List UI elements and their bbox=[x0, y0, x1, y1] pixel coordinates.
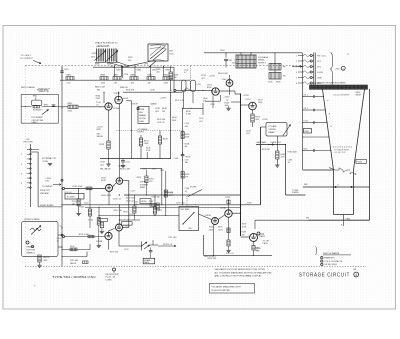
notes line 3 bbox=[215, 274, 263, 277]
svg-text:R144: R144 bbox=[172, 117, 176, 119]
resistor R861 bbox=[130, 75, 138, 85]
notes box bbox=[210, 284, 255, 294]
svg-text:LOCATE: LOCATE bbox=[269, 125, 278, 128]
svg-text:V173: V173 bbox=[246, 99, 252, 101]
svg-text:SEE PARTS LIST FOR SEMICON: SEE PARTS LIST FOR SEMICONDUCTOR TYPES bbox=[215, 268, 266, 271]
label above intensity box bbox=[38, 89, 50, 94]
svg-text:REAR MTD: REAR MTD bbox=[324, 256, 335, 259]
flood gun bracket bbox=[331, 53, 333, 88]
svg-text:.001: .001 bbox=[155, 111, 159, 113]
svg-text:.005: .005 bbox=[156, 72, 160, 74]
label TRACE ROTATION ADJ bbox=[95, 42, 118, 48]
potentiometer R891 trace rotation B bbox=[107, 49, 119, 66]
svg-text:C147 .02: C147 .02 bbox=[118, 166, 126, 168]
svg-text:R137: R137 bbox=[97, 129, 102, 131]
flood gun pin 6 bbox=[296, 82, 321, 85]
label R152 bbox=[186, 111, 191, 116]
label C134 bbox=[96, 102, 100, 107]
svg-text:5: 5 bbox=[296, 77, 297, 79]
svg-text:2: 2 bbox=[321, 261, 322, 263]
svg-text:+125V: +125V bbox=[136, 177, 142, 179]
svg-text:C180: C180 bbox=[288, 159, 292, 161]
label C167 bbox=[176, 202, 185, 204]
wire V193B grid bbox=[62, 234, 105, 238]
potentiometer R841 INTENSITY front panel box bbox=[21, 94, 58, 124]
trace rotation enclosure bbox=[93, 67, 175, 93]
resistor R863 bbox=[147, 75, 155, 85]
wire left bus vertical bbox=[61, 80, 62, 266]
svg-text:R178 1M: R178 1M bbox=[262, 149, 270, 151]
resistor R855 bbox=[100, 75, 108, 85]
svg-text:DIAG 2: DIAG 2 bbox=[32, 121, 38, 124]
connector to bus bbox=[38, 204, 62, 207]
svg-text:ALL VOLTAGES MEASURED WITH: ALL VOLTAGES MEASURED WITH NO SIGNAL APP… bbox=[215, 271, 273, 274]
svg-text:R157 1M: R157 1M bbox=[114, 210, 122, 212]
svg-text:-8: -8 bbox=[330, 126, 332, 128]
svg-text:.001: .001 bbox=[100, 164, 104, 166]
phosphor screen hatched band bbox=[310, 85, 368, 89]
vacuum tube V183A bbox=[220, 206, 233, 217]
svg-text:R147 2.2M: R147 2.2M bbox=[175, 100, 185, 102]
svg-text:ERASE: ERASE bbox=[27, 245, 35, 248]
wire to tube V135A grid bbox=[78, 106, 105, 107]
svg-text:C865: C865 bbox=[156, 69, 160, 71]
svg-text:RATE: RATE bbox=[144, 261, 150, 264]
resistor R139 vertical bbox=[99, 141, 110, 159]
diagonal switch arm bbox=[188, 190, 202, 197]
svg-text:4: 4 bbox=[355, 273, 357, 277]
wire vertical x170 bbox=[170, 92, 171, 158]
svg-text:+75: +75 bbox=[261, 234, 264, 236]
V183 box wall bbox=[203, 235, 205, 256]
svg-text:4.7K: 4.7K bbox=[281, 156, 286, 158]
flood gun pin 2 bbox=[296, 60, 321, 63]
svg-text:4: 4 bbox=[21, 164, 22, 166]
vacuum tube V135B bbox=[114, 93, 129, 104]
svg-text:R145 2.2M: R145 2.2M bbox=[120, 168, 130, 170]
svg-text:.02: .02 bbox=[185, 191, 188, 193]
resistor R148 vertical bbox=[169, 66, 179, 91]
label cluster bottom left bbox=[100, 162, 105, 167]
reference brace bbox=[315, 247, 316, 256]
svg-text:.01: .01 bbox=[96, 105, 99, 107]
label C153 bbox=[64, 192, 72, 194]
svg-text:C139: C139 bbox=[100, 162, 105, 164]
transformer T166 upper bbox=[269, 64, 286, 71]
svg-text:C159: C159 bbox=[129, 214, 133, 216]
svg-text:(SEE NOTE 3): (SEE NOTE 3) bbox=[96, 46, 109, 48]
svg-text:CONN: CONN bbox=[106, 279, 113, 281]
svg-text:1M: 1M bbox=[72, 203, 75, 205]
svg-text:VALUE: VALUE bbox=[70, 262, 77, 265]
wire rail to DL160 bbox=[240, 52, 251, 55]
svg-text:ERASE: ERASE bbox=[139, 114, 146, 117]
svg-text:R866: R866 bbox=[166, 69, 170, 71]
svg-text:220K: 220K bbox=[164, 82, 169, 84]
svg-text:L891: L891 bbox=[110, 67, 114, 69]
svg-text:V183B: V183B bbox=[205, 215, 212, 217]
labels on column lower bbox=[185, 188, 189, 193]
svg-text:.001: .001 bbox=[201, 78, 205, 80]
svg-text:DC SUPPLY: DC SUPPLY bbox=[21, 58, 34, 60]
svg-text:BEAM: BEAM bbox=[269, 131, 275, 134]
wire main vertical bus B bbox=[261, 127, 267, 205]
label R178 bbox=[262, 149, 270, 151]
wire V135B anode up bbox=[118, 66, 128, 97]
wire bottom long bbox=[204, 255, 272, 256]
label -GATE bbox=[256, 141, 282, 144]
svg-text:L245: L245 bbox=[160, 170, 164, 172]
svg-text:R153 470K: R153 470K bbox=[73, 186, 84, 188]
svg-text:C808: C808 bbox=[304, 131, 308, 133]
svg-text:SEL: SEL bbox=[185, 162, 189, 164]
notes line 2 bbox=[215, 271, 273, 274]
transistor Q195 cluster bbox=[132, 240, 158, 251]
CRT funnel left wall bbox=[323, 89, 334, 170]
svg-text:C136: C136 bbox=[124, 74, 128, 76]
svg-text:TRACE ROTATION TO: TRACE ROTATION TO bbox=[95, 42, 118, 45]
svg-text:+75V: +75V bbox=[335, 69, 341, 71]
dashed chassis boundary top bbox=[25, 64, 302, 66]
svg-text:390K: 390K bbox=[172, 120, 177, 122]
CRT electrode lead COLL bbox=[302, 121, 327, 124]
svg-text:R195: R195 bbox=[70, 246, 74, 248]
label C193 bbox=[124, 249, 128, 251]
svg-text:C158: C158 bbox=[174, 158, 178, 160]
resistor R153 bbox=[86, 187, 92, 190]
svg-text:ALUMINIZED PHOSPHOR SCREEN: ALUMINIZED PHOSPHOR SCREEN bbox=[313, 82, 346, 85]
CRT shield bottom bbox=[306, 217, 370, 220]
svg-text:+125V: +125V bbox=[262, 119, 268, 121]
wire CRT neck to base bbox=[341, 215, 344, 227]
svg-text:C168: C168 bbox=[185, 188, 189, 190]
label phosphor screen bbox=[313, 82, 346, 85]
svg-text:R167: R167 bbox=[149, 201, 153, 203]
svg-text:2: 2 bbox=[296, 61, 297, 63]
wire vertical x128.8 bbox=[123, 181, 129, 196]
write gun elements bbox=[329, 168, 356, 175]
svg-text:R861: R861 bbox=[131, 75, 136, 77]
label flood gun voltage bbox=[335, 69, 341, 71]
vacuum tube V173 bbox=[241, 99, 257, 110]
svg-text:R151: R151 bbox=[149, 178, 153, 180]
interlock box bbox=[179, 207, 199, 231]
svg-text:1: 1 bbox=[321, 257, 322, 259]
svg-text:R146: R146 bbox=[146, 147, 150, 149]
svg-text:R845: R845 bbox=[44, 104, 48, 106]
front panel erase control box bbox=[22, 222, 59, 257]
svg-text:DEF: DEF bbox=[304, 184, 308, 186]
wire V152B to V193A bbox=[119, 194, 120, 224]
labels left of V135 bbox=[96, 96, 102, 101]
wire V214 anode to CRT bbox=[255, 220, 309, 229]
svg-text:CRT: CRT bbox=[169, 51, 174, 53]
capacitor C197 column bbox=[149, 247, 153, 258]
svg-text:PLUG - IN: PLUG - IN bbox=[106, 277, 116, 279]
label R159 rows bbox=[126, 198, 136, 203]
label C165 bbox=[199, 118, 203, 123]
wire riser bbox=[163, 66, 164, 77]
svg-text:COIL: COIL bbox=[169, 54, 175, 56]
svg-text:R182 100K: R182 100K bbox=[288, 151, 298, 153]
wire riser left bbox=[61, 66, 63, 80]
label cathode CRT bbox=[263, 241, 271, 245]
svg-text:SEC EMIS: SEC EMIS bbox=[181, 209, 191, 211]
svg-text:BUTTON: BUTTON bbox=[27, 249, 36, 251]
svg-text:C166: C166 bbox=[268, 81, 272, 83]
svg-text:1M: 1M bbox=[185, 146, 188, 148]
locate upper beam box bbox=[266, 123, 287, 137]
svg-text:SEE NOTE 4: SEE NOTE 4 bbox=[204, 256, 217, 258]
svg-text:.001: .001 bbox=[185, 126, 189, 128]
svg-text:R159 120K: R159 120K bbox=[126, 198, 136, 200]
label R136 bbox=[126, 90, 135, 92]
label TYPE 564 bbox=[52, 275, 96, 279]
svg-text:SEL: SEL bbox=[97, 89, 101, 91]
small -8 marks on funnel bbox=[327, 100, 332, 128]
svg-text:R189: R189 bbox=[242, 232, 246, 234]
label R216 bbox=[256, 248, 260, 253]
svg-text:V164: V164 bbox=[222, 79, 228, 81]
label R193 bbox=[110, 251, 119, 253]
svg-text:C152: C152 bbox=[184, 69, 188, 71]
labels top middle bbox=[201, 75, 206, 80]
svg-text:6: 6 bbox=[296, 83, 297, 85]
svg-text:C157: C157 bbox=[131, 190, 135, 192]
labels x134 column bbox=[133, 195, 138, 220]
svg-text:SW: SW bbox=[189, 228, 192, 230]
svg-text:568: 568 bbox=[353, 269, 356, 271]
label R213 bbox=[158, 244, 176, 247]
resistor R843 bbox=[68, 103, 79, 112]
svg-text:C193: C193 bbox=[124, 249, 128, 251]
svg-text:.047: .047 bbox=[246, 133, 250, 135]
deflection plate line bbox=[303, 184, 370, 187]
wire coil stems bbox=[184, 92, 193, 109]
svg-text:V183A: V183A bbox=[220, 206, 227, 209]
wire y168 corner bbox=[140, 168, 164, 205]
labels below erase box bbox=[138, 128, 149, 134]
svg-text:STORAGE: STORAGE bbox=[258, 56, 269, 59]
svg-text:IMAGE: IMAGE bbox=[151, 103, 158, 106]
svg-text:C167 .005: C167 .005 bbox=[176, 202, 185, 204]
svg-text:F GUN: F GUN bbox=[357, 161, 363, 163]
svg-text:V135A: V135A bbox=[113, 107, 120, 110]
flood gun connector bus bbox=[314, 53, 316, 88]
svg-text:SCREEN: SCREEN bbox=[140, 184, 149, 186]
vacuum tube V183B bbox=[205, 215, 219, 224]
svg-text:R890: R890 bbox=[95, 64, 99, 66]
resistor R168 on column bbox=[181, 172, 189, 179]
erase rate box bbox=[143, 258, 155, 264]
label under pots bbox=[96, 46, 109, 48]
svg-text:CE 2: CE 2 bbox=[317, 66, 321, 68]
svg-text:3.3M: 3.3M bbox=[186, 113, 191, 115]
dashed lead to box bbox=[186, 196, 188, 207]
svg-text:ASTIG: ASTIG bbox=[44, 256, 50, 259]
resistor R175 bbox=[251, 110, 261, 127]
wire to V161 grid bbox=[176, 90, 212, 91]
svg-text:4: 4 bbox=[296, 72, 297, 74]
erase pulse generator box bbox=[132, 103, 158, 124]
label right V173 bbox=[258, 99, 263, 104]
label under bus left bbox=[21, 86, 49, 92]
CRT neck right rail bbox=[353, 170, 355, 215]
svg-text:R868 1M: R868 1M bbox=[120, 87, 128, 89]
svg-text:.01: .01 bbox=[288, 162, 291, 164]
label STORE bbox=[190, 187, 197, 189]
label R157 bbox=[114, 210, 122, 212]
svg-text:CATH: CATH bbox=[263, 242, 269, 245]
wire x99 column bbox=[99, 207, 107, 234]
svg-text:CATH: CATH bbox=[317, 76, 323, 79]
svg-text:VOLTAGES MEASURED WITH: VOLTAGES MEASURED WITH bbox=[212, 285, 242, 288]
reference item 3 bbox=[321, 263, 338, 266]
node circle left bbox=[62, 187, 64, 189]
svg-text:C855: C855 bbox=[116, 69, 120, 71]
wire gate row bbox=[256, 144, 286, 145]
labels below V183B bbox=[209, 224, 214, 256]
vacuum tube V164 bbox=[222, 79, 233, 86]
label R147 bbox=[175, 100, 185, 102]
reference item 1 bbox=[321, 256, 336, 259]
label DEF bbox=[304, 184, 308, 186]
horiz plug symbol bbox=[113, 268, 116, 273]
wire pots to boundary bbox=[105, 62, 129, 68]
inductor L152 bbox=[185, 88, 192, 91]
connector spine bbox=[31, 144, 39, 207]
CRT funnel right wall bbox=[354, 89, 365, 170]
label R218 bbox=[255, 248, 259, 253]
resistor R167 on mid wire bbox=[149, 201, 156, 206]
capacitor C851 bbox=[60, 67, 68, 81]
svg-text:C219 .01: C219 .01 bbox=[226, 253, 234, 255]
svg-text:C153 .01: C153 .01 bbox=[64, 192, 72, 194]
potentiometer R890 trace rotation A bbox=[95, 49, 107, 66]
wire y220 bbox=[119, 220, 140, 225]
vacuum tube V161 bbox=[207, 85, 219, 96]
svg-text:TP158: TP158 bbox=[185, 157, 190, 159]
capacitor C152 dashed lead bbox=[190, 66, 192, 88]
vacuum tube V135A bbox=[105, 103, 120, 116]
svg-text:GEN: GEN bbox=[139, 121, 144, 123]
resistor R156 on column bbox=[181, 132, 190, 139]
vacuum tube V152B bbox=[101, 177, 123, 184]
svg-text:L873: L873 bbox=[144, 63, 148, 65]
svg-text:R219 33K: R219 33K bbox=[208, 258, 217, 260]
label +225V V173 bbox=[243, 95, 249, 97]
svg-text:+GATE OUT: +GATE OUT bbox=[270, 141, 282, 144]
wire riser bbox=[121, 66, 122, 77]
wire V152 links bbox=[109, 183, 116, 205]
label +125V bbox=[224, 97, 231, 99]
label R142 bbox=[157, 119, 166, 124]
svg-text:R158: R158 bbox=[185, 143, 189, 145]
resistor R171 column bbox=[153, 195, 162, 216]
flood gun pin 5 bbox=[296, 76, 323, 79]
label L891 bbox=[110, 67, 114, 69]
label under bus mid bbox=[95, 87, 105, 92]
connector pin labels bbox=[21, 154, 22, 185]
svg-text:6: 6 bbox=[21, 173, 22, 175]
notes line 1 bbox=[215, 268, 266, 271]
transformer T166 lower bbox=[269, 73, 287, 80]
cluster on column mid bbox=[174, 153, 191, 165]
svg-text:470K: 470K bbox=[185, 136, 190, 138]
svg-text:8: 8 bbox=[21, 183, 22, 185]
label above dashes bbox=[70, 260, 88, 265]
svg-text:C161: C161 bbox=[228, 60, 232, 62]
wire y195 bbox=[124, 194, 241, 195]
vacuum tube V193B bbox=[96, 232, 112, 242]
label R182 bbox=[288, 151, 298, 153]
svg-text:R213 4.7K: R213 4.7K bbox=[163, 244, 173, 246]
wire V161 anode bbox=[219, 91, 240, 94]
ground left cluster bbox=[106, 159, 110, 167]
svg-text:R219 SEL: R219 SEL bbox=[70, 260, 78, 262]
wire row y=158.5 bbox=[100, 158, 171, 159]
label R868 bbox=[120, 87, 128, 89]
svg-text:R862: R862 bbox=[137, 69, 141, 71]
svg-text:(PANEL): (PANEL) bbox=[27, 251, 35, 254]
svg-text:C141: C141 bbox=[125, 161, 129, 163]
flood gun label box bbox=[356, 160, 367, 164]
svg-text:TO +300 V: TO +300 V bbox=[21, 55, 32, 57]
V161 enclosure corner bbox=[205, 95, 220, 101]
label TO DEF PL bbox=[292, 190, 299, 194]
wire rail to T166 bbox=[274, 52, 275, 72]
svg-text:1: 1 bbox=[296, 55, 297, 57]
svg-text:+12.2V: +12.2V bbox=[97, 126, 104, 128]
small row above notes bbox=[204, 256, 217, 258]
label on mid wire bbox=[246, 203, 252, 205]
reference item 2 bbox=[321, 260, 343, 263]
svg-text:R162 150K: R162 150K bbox=[218, 73, 229, 75]
resistor R851 bbox=[66, 75, 74, 85]
svg-text:C165: C165 bbox=[199, 118, 203, 120]
labels under T166 bbox=[268, 81, 280, 83]
label +225V at left bbox=[91, 53, 98, 58]
wire V183 links bbox=[218, 213, 240, 219]
label pos 12 bbox=[97, 126, 104, 131]
resistor R165 vertical bbox=[89, 216, 101, 248]
svg-text:STORAGE MESH: STORAGE MESH bbox=[334, 149, 350, 152]
svg-text:100K: 100K bbox=[144, 143, 149, 145]
wire y219.5 bbox=[199, 214, 212, 220]
flood gun pin 4 bbox=[296, 71, 323, 74]
svg-text:-8: -8 bbox=[327, 100, 329, 102]
svg-text:+225V: +225V bbox=[45, 178, 51, 180]
svg-text:R185: R185 bbox=[218, 227, 222, 229]
pulse input box bbox=[65, 194, 84, 200]
svg-text:TO SWEEP: TO SWEEP bbox=[42, 186, 53, 188]
svg-text:470K: 470K bbox=[146, 150, 151, 152]
svg-text:SEL VALUE: SEL VALUE bbox=[100, 167, 111, 170]
svg-text:R873: R873 bbox=[128, 57, 132, 59]
svg-text:R891: R891 bbox=[107, 64, 111, 66]
wire V183A top bbox=[225, 197, 231, 210]
terminal circle +75 bbox=[257, 232, 264, 236]
wire top bus bbox=[60, 79, 190, 81]
wire y215.5 bbox=[98, 215, 179, 216]
svg-text:R155 100K: R155 100K bbox=[101, 195, 112, 197]
label on bottom wire bbox=[208, 258, 217, 260]
reference header bbox=[323, 252, 351, 255]
svg-text:F GUN: F GUN bbox=[317, 72, 323, 74]
dashed chassis boundary left bbox=[24, 66, 26, 266]
svg-text:100K: 100K bbox=[258, 102, 263, 104]
ground below R180 bbox=[275, 159, 279, 167]
